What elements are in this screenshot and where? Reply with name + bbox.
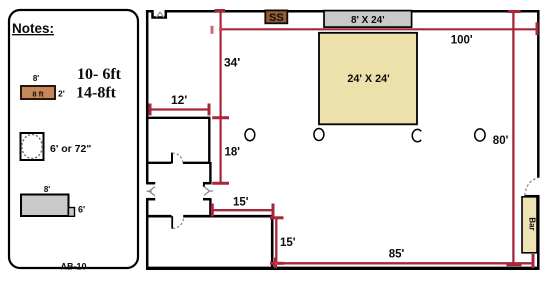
legend gray table step: [69, 208, 75, 217]
dim 12 right cap: [208, 104, 211, 116]
lower door swing arc: [173, 217, 184, 228]
svg-text:6': 6': [78, 205, 85, 215]
dim 100 right cap: [536, 22, 539, 35]
svg-text:85': 85': [389, 249, 405, 261]
svg-text:24' X 24': 24' X 24': [347, 73, 390, 85]
hallway right door break mark: [204, 187, 213, 196]
svg-text:2': 2': [58, 89, 65, 99]
legend panel rounded box: [9, 10, 138, 268]
dim line 12 horizontal: [149, 108, 211, 110]
bar alcove top tick: [524, 195, 539, 198]
legend round table dashed circle: [22, 135, 42, 159]
dim 12 left cap: [149, 104, 152, 116]
lower door leaf: [171, 216, 173, 228]
dim 34 top cap: [215, 9, 226, 12]
left wall door break mark: [147, 187, 155, 196]
junction dot V1xH1: [219, 28, 222, 31]
svg-text:Bar: Bar: [528, 217, 537, 230]
svg-text:15': 15': [280, 237, 296, 249]
dim 34/18 mid cap: [212, 116, 229, 119]
svg-text:AB-10: AB-10: [60, 261, 86, 271]
junction dot V2xH4: [275, 262, 278, 265]
dim 15v bottom cap: [270, 262, 284, 265]
svg-text:6' or 72": 6' or 72": [50, 143, 91, 155]
svg-text:8' X 24': 8' X 24': [351, 15, 385, 26]
SS box: [265, 10, 287, 23]
legend gray table rect: [21, 195, 69, 217]
dim line 85 horizontal: [275, 262, 533, 264]
dim 80 bottom cap: [507, 263, 522, 267]
dim 18 bottom cap: [212, 182, 229, 185]
top wall with entry notch: [146, 11, 538, 17]
svg-text:8 ft: 8 ft: [32, 90, 44, 99]
dim 15h left cap: [211, 204, 214, 217]
dim 15v top cap: [270, 216, 284, 219]
bar box: [522, 197, 537, 253]
hallway right wall lower foot: [203, 198, 212, 201]
dim 80 top cap: [508, 10, 521, 13]
dim line 100 horizontal: [220, 28, 538, 30]
room1 door leaf: [171, 153, 173, 164]
right wall lower: [537, 196, 540, 270]
dim 15h right cap: [272, 204, 275, 217]
room1 door swing arc: [172, 153, 183, 164]
hallway right wall foot lip: [203, 183, 205, 187]
column circle 4: [475, 129, 485, 141]
dim line 80 vertical: [512, 11, 514, 265]
svg-text:34': 34': [224, 56, 240, 70]
svg-text:8': 8': [33, 74, 39, 83]
hallway right wall lower: [209, 199, 211, 217]
svg-text:12': 12': [171, 93, 187, 107]
bottom wall: [146, 267, 540, 270]
left wall upper door foot: [146, 182, 155, 185]
hallway right wall upper foot: [203, 182, 212, 185]
lower wall right segment: [183, 215, 273, 218]
lower wall left segment: [146, 215, 172, 218]
legend round table square: [21, 133, 44, 160]
left wall upper: [146, 10, 149, 183]
dim line 15 vertical: [275, 217, 277, 265]
room1 top wall: [146, 117, 211, 119]
entry door caret (gray): [156, 12, 164, 17]
left wall lower door foot: [146, 198, 155, 201]
room1 bottom wall left segment: [146, 162, 171, 164]
stage box 8' X 24': [324, 11, 412, 28]
column C mark: [412, 129, 421, 141]
svg-text:80': 80': [493, 135, 509, 147]
left wall lower: [146, 199, 149, 269]
dim line 34/18 vertical: [220, 10, 222, 184]
legend stage box 8ft brown: [21, 86, 55, 99]
room1 right wall: [208, 117, 210, 164]
svg-text:8': 8': [44, 185, 50, 194]
dim 100 left cap (light): [211, 26, 214, 34]
hallway right wall upper: [209, 162, 211, 183]
lower middle right wall: [271, 217, 274, 268]
svg-text:SS: SS: [269, 12, 284, 24]
dim 85 right cap: [532, 254, 535, 268]
bar door dashed arc: [525, 178, 538, 196]
column circle 2: [314, 129, 324, 141]
svg-text:14-8ft: 14-8ft: [76, 85, 117, 102]
svg-text:Notes:: Notes:: [12, 21, 54, 36]
svg-text:15': 15': [233, 197, 249, 209]
room1 bottom wall right segment: [183, 162, 211, 164]
dim 85 left cap: [274, 258, 277, 269]
column circle 1: [245, 129, 255, 141]
right wall upper: [537, 10, 540, 178]
svg-text:100': 100': [451, 35, 473, 47]
svg-text:18': 18': [225, 146, 241, 158]
dim line 15 horizontal: [212, 209, 273, 211]
svg-text:10- 6ft: 10- 6ft: [77, 66, 122, 83]
dance floor box 24' X 24': [319, 33, 417, 125]
